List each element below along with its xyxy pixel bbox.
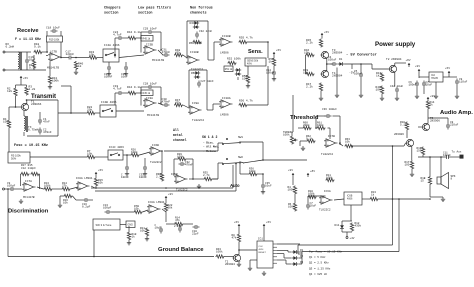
svg-text:2N3866: 2N3866 <box>31 103 42 106</box>
label R14 gb <box>175 217 180 223</box>
svg-text:+5V: +5V <box>324 30 329 34</box>
wire d11 vert <box>350 205 352 221</box>
label IC5B <box>171 173 178 176</box>
wire r15 up <box>95 176 97 178</box>
svg-text:Q3 = 1.25 KHz: Q3 = 1.25 KHz <box>309 267 331 270</box>
node c35 bus <box>262 159 264 161</box>
svg-text:1k: 1k <box>430 103 434 107</box>
svg-text:Transmit: Transmit <box>31 94 56 100</box>
resistor R29 <box>178 157 187 160</box>
wire sw2 vert <box>217 163 219 179</box>
wire fb1 left <box>141 31 147 33</box>
label C24 <box>113 31 122 37</box>
svg-text:section: section <box>104 11 118 16</box>
diode Q3 out <box>292 262 298 266</box>
label R18 gb <box>132 233 137 239</box>
resistor R13 ar <box>370 197 379 200</box>
svg-text:2.2k: 2.2k <box>306 85 313 89</box>
wire out to c17 <box>61 57 67 59</box>
label R40 <box>78 63 83 69</box>
wire minus input <box>46 55 48 57</box>
svg-text:MC1417B: MC1417B <box>147 114 159 117</box>
switch SW2 <box>222 158 240 164</box>
capacitor C12 gb <box>159 227 163 234</box>
wire ic6b out <box>164 150 218 152</box>
label IC7B thr <box>328 135 335 138</box>
wire fb3 right <box>187 158 194 160</box>
diode D7 sens <box>235 68 241 72</box>
resistor R11 thr <box>326 178 335 181</box>
node thr out <box>339 142 341 144</box>
wire det2 up <box>212 104 214 110</box>
svg-text:All: All <box>173 128 179 132</box>
inductor RX <box>18 52 21 70</box>
wire det1 to sens <box>214 41 220 43</box>
svg-text:MC1417B: MC1417B <box>47 67 59 70</box>
svg-text:470nF: 470nF <box>43 131 52 134</box>
wire r57 5v <box>273 56 275 58</box>
label R47 <box>175 99 180 105</box>
label R36 auto <box>249 168 256 174</box>
label C30 <box>162 98 171 104</box>
label C2 <box>43 129 52 135</box>
wire c24-r44 <box>124 37 128 39</box>
resistor R7B <box>134 210 143 213</box>
svg-text:IC1: IC1 <box>258 238 263 241</box>
label MC1458 <box>47 67 59 70</box>
wire r2 base <box>15 97 17 108</box>
ground below R47 conv <box>319 96 323 100</box>
capacitor C25 row3 <box>125 165 129 172</box>
svg-text:- 5V Converter: - 5V Converter <box>346 54 377 58</box>
switch GND box <box>126 221 135 228</box>
text frequency table <box>309 250 342 276</box>
label R22 <box>87 106 92 112</box>
node t1 base <box>15 106 17 108</box>
resistor R47 <box>174 103 183 106</box>
resistor R22 <box>87 111 96 114</box>
svg-text:R44 9.1k: R44 9.1k <box>127 30 141 34</box>
label T4 <box>332 72 343 78</box>
label C7 <box>310 202 317 208</box>
label IC6A <box>324 190 331 193</box>
resistor R52 <box>228 61 237 64</box>
svg-text:100k: 100k <box>317 123 324 127</box>
label R6 thr <box>288 203 295 209</box>
resistor R45 row2 boxed <box>141 90 153 96</box>
label SW 1 & 2 <box>202 135 218 139</box>
label IC3B <box>146 44 153 47</box>
power +5V disc <box>95 168 103 176</box>
label Q3 <box>300 261 304 264</box>
svg-text:47k: 47k <box>232 236 237 240</box>
svg-text:R56 4.7k: R56 4.7k <box>239 99 253 103</box>
svg-text:+5V: +5V <box>23 76 28 80</box>
capacitor C28 <box>147 85 154 89</box>
wire r35 to sw2 <box>213 178 219 180</box>
svg-text:2.7k: 2.7k <box>156 175 163 179</box>
label TL022 ic6a <box>319 209 331 212</box>
op-amp IC3A <box>143 99 157 107</box>
label T1 <box>31 101 42 107</box>
wire bus right vert1 <box>392 146 394 245</box>
svg-text:120nF: 120nF <box>66 53 75 56</box>
svg-text:9.1k: 9.1k <box>29 66 36 70</box>
wire q1 drop <box>287 250 289 252</box>
resistor R50 det1 <box>193 40 202 43</box>
node r40 top <box>75 57 77 59</box>
wire fb3 rightv <box>192 159 194 179</box>
label C16 <box>29 56 36 62</box>
resistor R3 <box>25 87 28 96</box>
label C32 <box>199 30 213 33</box>
label C27 <box>201 80 215 83</box>
wire rx bottom <box>18 69 46 71</box>
label R47 ps <box>376 72 381 78</box>
svg-text:Ground Balance: Ground Balance <box>158 247 204 253</box>
label C17 <box>66 51 75 57</box>
label R62 <box>306 135 313 141</box>
label R14 audio <box>430 101 435 107</box>
svg-text:10k: 10k <box>376 88 381 92</box>
svg-text:10k: 10k <box>134 207 139 211</box>
label -5V Converter <box>346 54 377 58</box>
svg-text:+5V: +5V <box>98 168 103 172</box>
node bus gb a <box>165 187 167 189</box>
ground below speaker <box>441 197 445 201</box>
label R47 conv <box>306 83 313 89</box>
node r63 wire <box>351 145 353 147</box>
wire conv top <box>321 37 323 39</box>
wire ic5b out <box>189 178 204 180</box>
node bus gb b <box>95 187 97 189</box>
ground row3 <box>197 184 201 188</box>
wire 4v stub <box>346 232 348 237</box>
svg-text:RESET: RESET <box>259 252 267 254</box>
IC 4024 pins <box>273 244 277 263</box>
wire out row1 <box>158 50 163 55</box>
label IC9A <box>192 102 199 105</box>
label R16 disc <box>63 199 68 205</box>
power +5V sens <box>273 48 281 56</box>
op-amp IC7B threshold <box>324 139 338 147</box>
svg-text:100nF: 100nF <box>139 176 147 179</box>
svg-text:R19 100k: R19 100k <box>49 39 60 42</box>
wire q1 wire <box>277 249 288 251</box>
wire tx bot <box>23 132 25 136</box>
diode D6 <box>194 75 200 79</box>
wire c16 loop l <box>73 196 77 200</box>
svg-text:R51 1k: R51 1k <box>225 69 233 71</box>
resistor R1B audio <box>428 176 431 185</box>
svg-text:+5V: +5V <box>234 220 239 224</box>
svg-text:D3: D3 <box>190 22 194 25</box>
label R50 sens <box>242 75 247 81</box>
svg-text:100k: 100k <box>249 169 256 173</box>
diode D3 <box>193 21 199 25</box>
svg-text:2.7k: 2.7k <box>203 173 210 177</box>
wire c8 top <box>447 118 449 123</box>
svg-text:10k: 10k <box>140 229 145 233</box>
wire d11r12 bot <box>342 231 352 233</box>
wire t2 emit down <box>394 72 396 86</box>
wire row3 to sw1 <box>217 143 219 151</box>
capacitor C32 det1 <box>195 32 199 39</box>
svg-text:100k: 100k <box>326 176 333 180</box>
wire fb3 left <box>174 158 178 160</box>
wire sw2 node <box>243 160 263 163</box>
wire pot to r7 <box>30 156 87 158</box>
label IC10A <box>222 97 231 100</box>
wire c5 up <box>360 64 362 72</box>
node t7 coll <box>238 249 240 251</box>
wire bus upper drop <box>232 165 234 188</box>
wire fb right vert <box>60 42 62 58</box>
wire q1 to diode <box>288 251 292 253</box>
label IC10B row1 <box>190 51 199 54</box>
svg-text:+5V: +5V <box>266 220 271 224</box>
svg-text:Threshold: Threshold <box>290 115 319 121</box>
wire row2 in <box>115 92 117 94</box>
svg-text:section: section <box>138 11 152 16</box>
label C23 <box>121 73 128 79</box>
node lp1 in <box>140 37 142 39</box>
wire conv out <box>327 63 334 65</box>
op-amp IC9A detector row2 <box>188 106 202 114</box>
label R3 <box>29 86 36 92</box>
svg-text:100k: 100k <box>52 79 59 83</box>
svg-text:Receive: Receive <box>17 28 39 34</box>
label R43 <box>89 51 94 57</box>
resistor R47 conv <box>319 83 322 92</box>
label R12 ar <box>355 222 362 228</box>
svg-text:4.7uF: 4.7uF <box>113 88 122 91</box>
capacitor C9 disc <box>9 187 16 191</box>
svg-text:100k: 100k <box>177 155 184 159</box>
label IC4A <box>104 44 120 47</box>
wire c19-r44b <box>124 92 128 94</box>
transistor T7 <box>233 254 241 261</box>
ground below C42 <box>395 96 399 100</box>
label C6 <box>409 81 418 87</box>
label SW list <box>203 141 220 153</box>
svg-text:200k: 200k <box>303 123 310 127</box>
wire c21 up <box>108 62 110 65</box>
wire t8 down <box>411 147 413 161</box>
capacitor C6 <box>415 81 419 88</box>
svg-text:2.2k: 2.2k <box>306 41 313 45</box>
label Low pass filters section <box>138 6 171 16</box>
wire bus bottom upper left <box>298 244 393 246</box>
wire disc in drop <box>7 189 9 191</box>
power +9V thr <box>288 168 294 177</box>
svg-text:100: 100 <box>405 164 410 167</box>
node disc in <box>7 188 9 190</box>
potentiometer THRESHOLD wiper <box>294 139 298 141</box>
wire sens diodes <box>237 77 239 80</box>
resistor R4 thr <box>293 186 296 195</box>
label IC3A <box>146 97 153 100</box>
node c5 top <box>360 63 362 65</box>
ground below C33 <box>143 172 147 176</box>
label C25 <box>121 174 129 180</box>
svg-text:Sens.: Sens. <box>248 49 263 55</box>
wire chopper2 out <box>116 110 144 112</box>
wire fb box right <box>60 31 62 36</box>
transistor T2 <box>389 65 397 72</box>
ground below reg <box>434 94 438 98</box>
label R63 <box>345 138 350 144</box>
label T3 <box>332 49 343 55</box>
svg-text:470nF: 470nF <box>162 51 171 54</box>
op-amp IC10A sens bottom <box>219 100 233 108</box>
ground below C35 <box>261 190 265 194</box>
svg-text:+9V: +9V <box>415 64 420 68</box>
svg-text:1.2k: 1.2k <box>29 87 36 91</box>
svg-text:TL022C2: TL022C2 <box>150 161 162 164</box>
wire r8 t7 <box>238 243 240 255</box>
svg-text:R50 620k: R50 620k <box>189 41 203 45</box>
inductor TX <box>24 116 27 132</box>
wire r48 to det <box>183 55 187 58</box>
wire t1 coll <box>26 100 28 104</box>
resistor R10 ar <box>308 195 317 198</box>
wire c7 top <box>308 195 326 197</box>
transistor T3 <box>321 51 329 58</box>
wire reg out <box>443 76 457 78</box>
svg-text:4024: 4024 <box>259 249 265 251</box>
label C42 <box>390 85 404 88</box>
resistor R30 <box>160 173 163 182</box>
label IC7B <box>50 51 57 54</box>
wire c7ps down <box>423 88 425 95</box>
resistor R48 <box>174 53 183 56</box>
wire r22 up <box>165 200 167 203</box>
wire c42 down <box>396 94 398 97</box>
svg-text:For Fosc = 10.15 KHz: For Fosc = 10.15 KHz <box>309 250 342 254</box>
wire q3 to diode <box>286 263 292 265</box>
wire osc to r22 <box>58 112 87 114</box>
wire sens pot down <box>247 66 249 75</box>
node lp2 out <box>160 102 162 104</box>
svg-text:Discrimination: Discrimination <box>8 209 49 215</box>
label D3 <box>190 22 194 25</box>
chopper IC4B contacts <box>102 109 113 112</box>
wire r47 gnd wire <box>320 92 322 97</box>
svg-text:1k: 1k <box>78 64 82 68</box>
wire fb2 right <box>154 86 162 88</box>
svg-text:100nF: 100nF <box>121 176 129 179</box>
wire transmit top <box>27 99 58 101</box>
svg-text:Choppers: Choppers <box>104 6 121 11</box>
wire spk vert left <box>429 157 431 176</box>
op-amp IC10B detector row1 <box>186 56 200 64</box>
svg-text:IC3A: IC3A <box>146 97 153 100</box>
svg-text:C32 22nF: C32 22nF <box>199 30 213 33</box>
label R11 gb <box>140 227 145 233</box>
wire sw2 to r36 <box>241 162 245 163</box>
wire r55 out <box>248 41 269 43</box>
svg-text:100k: 100k <box>44 184 51 188</box>
svg-text:4.7uF: 4.7uF <box>113 34 122 37</box>
label R13 disc top <box>21 164 33 167</box>
wire to t2 base <box>371 64 373 69</box>
label C4 <box>328 56 337 62</box>
svg-text:100k: 100k <box>288 188 295 192</box>
connector disc input <box>3 188 9 190</box>
label To Aux <box>452 151 462 154</box>
resistor R56 <box>239 103 248 106</box>
label R61 <box>317 122 324 128</box>
transistor T5 <box>422 123 430 130</box>
label D1 <box>339 58 343 61</box>
potentiometer R5 frequency <box>8 152 30 163</box>
capacitor C27 det2 <box>197 81 201 88</box>
svg-text:IC5B: IC5B <box>171 173 178 176</box>
wire lp2 vert in <box>140 96 142 106</box>
wire auto to right <box>263 159 307 161</box>
wire reg gnd <box>435 82 437 94</box>
capacitor C35 <box>261 183 265 190</box>
svg-text:LM308: LM308 <box>220 114 229 117</box>
ground below C6 <box>415 94 419 98</box>
svg-text:TL022C2: TL022C2 <box>321 153 333 156</box>
diode D4 <box>193 25 199 29</box>
svg-text:D5: D5 <box>191 72 195 75</box>
label C29 <box>143 28 157 31</box>
wire box to r13 <box>362 198 370 200</box>
capacitor C31 <box>163 53 170 57</box>
wire row1 vert <box>114 38 116 58</box>
resistor R43 gb <box>216 255 225 258</box>
chopper switch IC4A <box>103 49 119 62</box>
resistor R8 <box>237 234 240 243</box>
wire r3 top <box>26 85 28 87</box>
wire c36 left <box>316 115 326 117</box>
ground disc2 <box>58 203 62 207</box>
label C7 ps <box>426 81 433 87</box>
svg-text:100pF: 100pF <box>7 185 16 188</box>
wire r18gb up <box>128 226 130 232</box>
label RX coil <box>6 43 15 49</box>
label C36 <box>322 108 337 111</box>
diode Q1 out <box>292 250 298 254</box>
wire t2 coll up <box>394 63 396 66</box>
capacitor C7 ps <box>422 81 426 88</box>
capacitor C24 <box>117 36 124 40</box>
wire bus right vert2 <box>398 199 400 252</box>
wire r35 right <box>213 178 219 180</box>
label R44 <box>127 30 141 34</box>
wire diodes join2 <box>299 257 303 259</box>
resistor R2 <box>14 88 17 97</box>
wire 5v stem <box>20 80 22 85</box>
power +5V reg <box>445 66 450 75</box>
resistor R36 auto <box>249 172 258 175</box>
label C13 <box>103 204 112 210</box>
label R48 ps <box>376 86 381 92</box>
resistor disc fb1 <box>21 172 30 175</box>
ground below C5 <box>359 93 363 97</box>
label C33 <box>139 174 147 180</box>
wire c33 up <box>144 158 146 165</box>
svg-text:Power supply: Power supply <box>375 41 416 48</box>
label R26 <box>131 149 138 155</box>
svg-text:220uF: 220uF <box>450 124 459 127</box>
wire det1 fb right <box>207 21 209 60</box>
resistor R17 audio <box>410 161 413 170</box>
wire c16 bot <box>26 65 28 71</box>
